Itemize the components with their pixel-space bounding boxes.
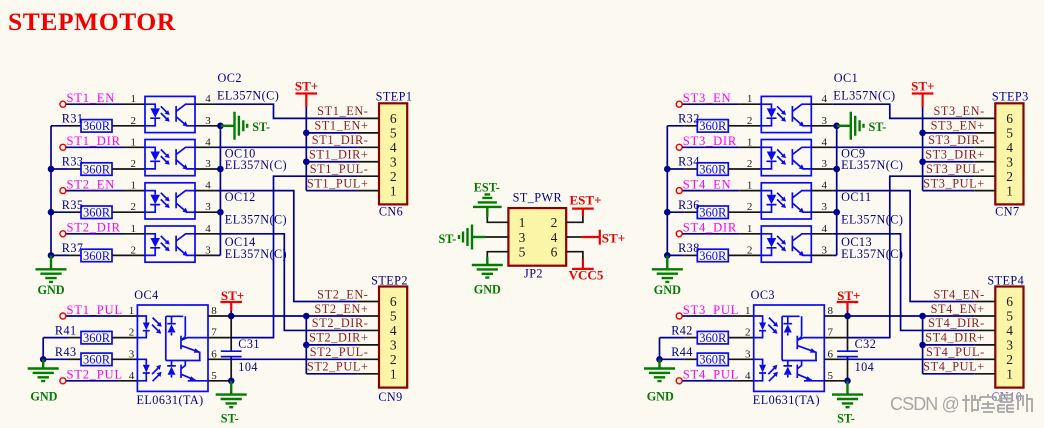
svg-text:1: 1 — [390, 367, 397, 382]
svg-text:GND: GND — [30, 390, 57, 404]
svg-text:VCC5: VCC5 — [569, 267, 604, 282]
svg-text:3: 3 — [822, 244, 828, 256]
junction — [303, 130, 310, 137]
pin CN6.1 — [358, 190, 379, 192]
pin R31.2 to OC2.2 — [112, 125, 145, 127]
pin CN9.5 — [358, 315, 379, 317]
wire GND bus to R34 — [667, 168, 685, 170]
svg-text:OC12: OC12 — [225, 190, 256, 204]
svg-text:R33: R33 — [62, 155, 84, 169]
svg-text:ST4_EN-: ST4_EN- — [933, 287, 984, 301]
svg-text:1: 1 — [1006, 367, 1013, 382]
wire pin3 to ST- bus — [217, 168, 221, 170]
svg-text:6: 6 — [390, 294, 397, 309]
op-toisolator OC11 EL357N(C) — [761, 183, 811, 219]
svg-text:R44: R44 — [671, 345, 693, 359]
wire ST+ bus bottom — [305, 316, 307, 374]
capacitor C31 plates — [221, 351, 242, 356]
resistor R32 360R — [697, 119, 728, 133]
pin CN10.2 — [974, 358, 995, 360]
power EST+ bar — [572, 208, 594, 210]
svg-text:EL357N(C): EL357N(C) — [225, 212, 287, 226]
svg-text:2: 2 — [551, 215, 558, 230]
svg-text:R38: R38 — [678, 241, 700, 255]
pin CN10.6 — [974, 301, 995, 303]
pin CN7.2 — [974, 175, 995, 177]
wire GND bus2 — [42, 338, 44, 360]
svg-text:STEP3: STEP3 — [992, 89, 1029, 103]
pin OC10.1 — [124, 146, 146, 148]
svg-text:ST3_EN+: ST3_EN+ — [931, 119, 985, 133]
junction — [664, 166, 671, 173]
pin OC9.3 — [811, 168, 833, 170]
ground GND — [36, 269, 67, 282]
svg-text:3: 3 — [822, 158, 828, 170]
svg-text:5: 5 — [1006, 309, 1013, 324]
pin R43.2 — [112, 358, 137, 360]
wire ST3_PUL — [682, 315, 732, 317]
svg-text:R31: R31 — [62, 112, 84, 126]
node ST1_PUL no-connect circle — [60, 313, 66, 319]
svg-text:CN9: CN9 — [378, 390, 402, 404]
svg-text:ST3_EN: ST3_EN — [683, 91, 732, 105]
svg-text:4: 4 — [129, 370, 135, 382]
svg-text:3: 3 — [390, 338, 397, 353]
svg-text:EL357N(C): EL357N(C) — [217, 89, 279, 103]
svg-text:R43: R43 — [55, 345, 77, 359]
svg-text:ST4_DIR-: ST4_DIR- — [928, 316, 985, 330]
svg-text:3: 3 — [519, 230, 526, 245]
pin OC12.3 — [195, 211, 217, 213]
svg-text:ST_PWR: ST_PWR — [513, 190, 563, 204]
power EST- bars — [473, 194, 502, 207]
svg-text:ST4_EN+: ST4_EN+ — [931, 302, 985, 316]
pin OC3.5 — [824, 380, 846, 382]
junction — [844, 313, 851, 320]
svg-text:R34: R34 — [678, 155, 700, 169]
svg-text:ST2_EN: ST2_EN — [67, 177, 116, 191]
junction — [833, 166, 840, 173]
svg-text:4: 4 — [745, 370, 751, 382]
resistor R37 360R — [81, 249, 112, 263]
pin R35.2 to OC12.2 — [112, 211, 145, 213]
resistor R43 360R — [81, 353, 112, 367]
svg-text:R42: R42 — [671, 323, 693, 337]
wire ST3_EN+ — [923, 132, 975, 134]
wire GND bus — [666, 126, 668, 256]
pin OC14.3 — [195, 254, 217, 256]
wire ST1_EN — [66, 103, 123, 105]
ground GND lead2 — [42, 359, 44, 368]
svg-text:R41: R41 — [55, 323, 77, 337]
wire OC3.5 to ST- — [846, 380, 848, 382]
junction — [48, 209, 55, 216]
junction — [303, 342, 310, 349]
svg-text:3: 3 — [822, 201, 828, 213]
svg-text:ST1_DIR: ST1_DIR — [67, 134, 121, 148]
wire ST4_PUL+ — [923, 373, 975, 375]
ground GND — [652, 269, 683, 282]
pin CN7.1 — [974, 190, 995, 192]
pin R37.2 to OC14.2 — [112, 254, 145, 256]
ground GND mid bars — [472, 265, 503, 278]
svg-text:CN7: CN7 — [995, 204, 1019, 218]
svg-text:2: 2 — [390, 352, 397, 367]
svg-text:3: 3 — [205, 158, 211, 170]
pin OC11.3 — [811, 211, 833, 213]
svg-text:2: 2 — [745, 327, 751, 339]
svg-text:R32: R32 — [678, 112, 700, 126]
svg-text:GND: GND — [474, 282, 501, 296]
svg-text:ST4_DIR+: ST4_DIR+ — [925, 331, 985, 345]
wire ST2_PUL — [66, 380, 116, 382]
svg-text:R36: R36 — [678, 198, 700, 212]
svg-text:R37: R37 — [62, 241, 84, 255]
svg-text:GND: GND — [654, 283, 681, 297]
pin JP2.6 — [566, 252, 583, 259]
watermark background halo — [886, 393, 1035, 416]
wire GND bus2 to R42 — [660, 337, 685, 339]
pin R31.1 — [69, 125, 82, 127]
wire GND bus to R38 — [667, 254, 685, 256]
svg-text:2: 2 — [390, 169, 397, 184]
wire ST1_DIR- — [217, 146, 358, 148]
wire GND bus2 to R43 — [43, 358, 68, 360]
pin R42.1 — [685, 337, 698, 339]
svg-text:ST+: ST+ — [221, 288, 244, 303]
wire pin3 to ST- bus — [217, 211, 221, 213]
power EST- lead — [486, 207, 488, 217]
pin R41.1 — [69, 337, 82, 339]
wire ST1_EN- — [217, 104, 358, 118]
pin OC13.1 — [740, 233, 762, 235]
svg-text:4: 4 — [822, 93, 828, 105]
svg-text:OC3: OC3 — [751, 288, 775, 302]
pin OC3.1 — [732, 315, 753, 317]
power ST+ lead — [921, 94, 923, 108]
svg-text:ST3_PUL-: ST3_PUL- — [926, 162, 985, 176]
resistor R38 360R — [697, 249, 728, 263]
capacitor C31 leads — [230, 316, 232, 381]
svg-text:ST3_DIR-: ST3_DIR- — [928, 133, 985, 147]
svg-text:6: 6 — [551, 245, 558, 260]
ground GND lead2 — [658, 359, 660, 368]
pin JP2.3 — [486, 236, 509, 238]
pin CN10.3 — [974, 344, 995, 346]
svg-text:ST1_EN-: ST1_EN- — [317, 104, 368, 118]
pin CN10.1 — [974, 373, 995, 375]
wire GND bus2 to R41 — [43, 337, 68, 339]
resistor R35 360R — [81, 206, 112, 220]
wire ST3_EN- — [833, 104, 974, 118]
pin R38.1 — [685, 254, 698, 256]
svg-text:ST1_PUL: ST1_PUL — [67, 303, 123, 317]
svg-text:ST4_PUL-: ST4_PUL- — [926, 345, 985, 359]
pin OC9.1 — [740, 146, 762, 148]
node ST1_DIR no-connect circle — [60, 144, 66, 150]
svg-text:ST1_EN+: ST1_EN+ — [314, 119, 368, 133]
svg-text:3: 3 — [390, 154, 397, 169]
svg-text:2: 2 — [747, 244, 753, 256]
wire GND bus2 to R44 — [660, 358, 685, 360]
wire pin3 to ST- bus — [833, 254, 837, 256]
node ST4_EN no-connect circle — [676, 188, 682, 194]
svg-text:EL357N(C): EL357N(C) — [841, 212, 903, 226]
wire ST1_DIR+ — [306, 161, 358, 163]
pin OC10.3 — [195, 168, 217, 170]
pin JP2.4 — [566, 236, 581, 238]
wire GND bus to R36 — [667, 211, 685, 213]
wire ST2_EN — [66, 190, 123, 192]
svg-text:5: 5 — [1006, 126, 1013, 141]
svg-text:ST+: ST+ — [837, 288, 860, 303]
ground GND mid lead — [486, 257, 488, 265]
svg-text:ST1_EN: ST1_EN — [67, 91, 116, 105]
node ST3_DIR no-connect circle — [676, 144, 682, 150]
svg-text:2: 2 — [129, 327, 135, 339]
pin R34.2 to OC9.2 — [728, 168, 761, 170]
pin R41.2 — [112, 337, 137, 339]
svg-text:1: 1 — [745, 305, 751, 317]
node ST4_PUL no-connect circle — [676, 378, 682, 384]
junction — [919, 342, 926, 349]
junction — [833, 209, 840, 216]
wire ST4_EN — [682, 190, 739, 192]
resistor R42 360R — [697, 331, 728, 345]
wire ST2_DIR+ — [306, 344, 358, 346]
pin OC11.1 — [740, 190, 762, 192]
svg-text:3: 3 — [1006, 338, 1013, 353]
pin OC2.1 — [124, 103, 146, 105]
power ST- bars — [235, 112, 248, 140]
svg-text:EL357N(C): EL357N(C) — [841, 247, 903, 261]
pin OC9.4 — [811, 146, 833, 148]
junction — [656, 356, 663, 363]
svg-text:4: 4 — [205, 93, 211, 105]
pin OC4.5 — [208, 380, 230, 382]
junction — [48, 252, 55, 259]
wire ST1_PUL- — [230, 176, 358, 337]
op-toisolator OC14 EL357N(C) — [145, 226, 195, 262]
op-toisolator OC12 EL357N(C) — [145, 183, 195, 219]
svg-text:4: 4 — [205, 223, 211, 235]
power ST- mid lead — [472, 236, 486, 238]
svg-text:1: 1 — [131, 223, 137, 235]
svg-text:EL0631(TA): EL0631(TA) — [137, 393, 204, 407]
pin CN6.3 — [358, 161, 379, 163]
junction — [664, 252, 671, 259]
svg-text:104: 104 — [238, 360, 258, 374]
power ST- lead — [220, 125, 234, 127]
wire pin3 to ST- bus — [833, 125, 837, 127]
pin CN6.2 — [358, 175, 379, 177]
pin CN9.2 — [358, 358, 379, 360]
svg-text:2: 2 — [131, 115, 137, 127]
pin R36.2 to OC11.2 — [728, 211, 761, 213]
svg-text:CSDN @: CSDN @ — [890, 394, 959, 414]
pin OC2.4 — [195, 103, 217, 105]
svg-text:1: 1 — [747, 180, 753, 192]
svg-text:4: 4 — [205, 136, 211, 148]
connector CN9 STEP2 body — [379, 287, 407, 388]
pin R42.2 — [728, 337, 753, 339]
pin OC13.4 — [811, 233, 833, 235]
pin OC14.1 — [124, 233, 146, 235]
svg-text:4: 4 — [1006, 140, 1013, 155]
pin CN7.6 — [974, 117, 995, 119]
power ST+ bottom lead — [846, 302, 848, 311]
wire ST3_DIR- — [833, 146, 974, 148]
wire ST4_PUL- — [846, 358, 974, 360]
pin OC2.3 — [195, 125, 217, 127]
wire ST+ bus bottom — [922, 316, 924, 374]
power ST- lead — [837, 125, 851, 127]
pin OC3.8 — [824, 315, 846, 317]
pin OC4.8 — [208, 315, 230, 317]
pin OC4.7 — [208, 337, 230, 339]
svg-text:5: 5 — [390, 309, 397, 324]
ground GND 2 — [28, 369, 59, 382]
junction — [217, 166, 224, 173]
svg-text:EST-: EST- — [474, 180, 500, 194]
wire ST2_PUL- — [230, 358, 358, 360]
resistor R44 360R — [697, 353, 728, 367]
svg-text:1: 1 — [519, 215, 526, 230]
svg-text:1: 1 — [131, 136, 137, 148]
svg-text:ST2_PUL: ST2_PUL — [67, 368, 123, 382]
svg-text:C32: C32 — [855, 337, 877, 351]
connector CN7 STEP3 body — [995, 103, 1023, 204]
pin JP2.1 — [487, 217, 508, 222]
svg-text:C31: C31 — [238, 337, 260, 351]
pin R32.1 — [685, 125, 698, 127]
op-toisolator OC4 internal symbol — [137, 316, 208, 381]
svg-text:1: 1 — [747, 136, 753, 148]
svg-text:EL357N(C): EL357N(C) — [833, 89, 895, 103]
pin OC13.3 — [811, 254, 833, 256]
resistor R41 360R — [81, 331, 112, 345]
svg-text:2: 2 — [131, 201, 137, 213]
pin CN6.5 — [358, 132, 379, 134]
svg-text:2: 2 — [1006, 169, 1013, 184]
wire ST+ bus — [305, 107, 307, 191]
junction — [833, 123, 840, 130]
svg-text:JP2: JP2 — [524, 267, 543, 281]
wire GND bus to R37 — [51, 254, 69, 256]
op-toisolator OC3 internal symbol — [754, 316, 825, 381]
ground GND 2 — [644, 369, 675, 382]
svg-text:1: 1 — [390, 183, 397, 198]
wire ST+ to CN9 EN+ — [230, 311, 358, 316]
resistor R31 360R — [81, 119, 112, 133]
svg-text:ST3_PUL+: ST3_PUL+ — [923, 177, 985, 191]
wire ST2_PUL+ — [306, 373, 358, 375]
svg-text:ST4_EN: ST4_EN — [683, 177, 732, 191]
watermark hanzi 柯宝最帅 (approximated strokes) — [962, 394, 1032, 412]
svg-text:ST1_PUL+: ST1_PUL+ — [307, 177, 369, 191]
junction — [217, 209, 224, 216]
svg-text:104: 104 — [855, 360, 875, 374]
pin OC3.7 — [824, 337, 846, 339]
svg-text:ST1_PUL-: ST1_PUL- — [310, 162, 369, 176]
svg-text:ST3_DIR+: ST3_DIR+ — [925, 148, 985, 162]
op-toisolator OC13 EL357N(C) — [761, 226, 811, 262]
pin JP2.2 — [566, 216, 583, 222]
pin OC11.4 — [811, 190, 833, 192]
svg-text:1: 1 — [747, 223, 753, 235]
svg-text:2: 2 — [131, 158, 137, 170]
wire ST2_DIR- — [217, 234, 358, 331]
wire ST1_PUL+ — [306, 190, 358, 192]
node ST2_DIR no-connect circle — [60, 231, 66, 237]
pin R34.1 — [685, 168, 698, 170]
svg-text:ST-: ST- — [438, 232, 456, 246]
wire GND bus2 — [659, 338, 661, 360]
svg-text:3: 3 — [822, 115, 828, 127]
svg-text:5: 5 — [519, 245, 526, 260]
svg-text:ST2_EN-: ST2_EN- — [317, 287, 368, 301]
wire ST3_EN — [682, 103, 739, 105]
wire GND bus — [50, 126, 52, 256]
op-toisolator OC3 EL0631(TA) body — [754, 305, 825, 391]
power EST+ lead — [582, 209, 584, 216]
power ST+ — [296, 93, 318, 95]
pin R37.1 — [69, 254, 82, 256]
svg-text:4: 4 — [551, 230, 558, 245]
svg-text:GND: GND — [647, 390, 674, 404]
wire ST3_PUL- — [846, 176, 974, 337]
op-toisolator OC1 EL357N(C) — [761, 96, 811, 132]
pin R33.1 — [69, 168, 82, 170]
power VCC5 bar — [572, 268, 594, 270]
svg-text:ST4_PUL: ST4_PUL — [683, 368, 739, 382]
svg-text:OC4: OC4 — [134, 288, 158, 302]
junction — [919, 158, 926, 165]
svg-text:ST1_DIR+: ST1_DIR+ — [309, 148, 369, 162]
svg-text:1: 1 — [747, 93, 753, 105]
pin CN7.3 — [974, 161, 995, 163]
ground GND lead — [50, 255, 52, 269]
svg-text:3: 3 — [205, 115, 211, 127]
svg-text:EL357N(C): EL357N(C) — [225, 158, 287, 172]
pin OC10.4 — [195, 146, 217, 148]
svg-text:3: 3 — [745, 348, 751, 360]
pin R35.1 — [69, 211, 82, 213]
svg-text:ST4_DIR: ST4_DIR — [683, 221, 737, 235]
wire OC4.5 to ST- — [230, 380, 232, 382]
wire GND bus to R32 — [667, 125, 685, 127]
svg-text:1: 1 — [1006, 183, 1013, 198]
svg-text:2: 2 — [131, 244, 137, 256]
svg-text:4: 4 — [205, 180, 211, 192]
svg-text:R35: R35 — [62, 198, 84, 212]
svg-text:ST3_EN-: ST3_EN- — [933, 104, 984, 118]
svg-text:ST3_PUL: ST3_PUL — [683, 303, 739, 317]
node ST2_PUL no-connect circle — [60, 378, 66, 384]
wire ST4_EN- — [833, 191, 974, 302]
pin CN9.1 — [358, 373, 379, 375]
resistor R36 360R — [697, 206, 728, 220]
svg-text:1: 1 — [131, 93, 137, 105]
junction — [919, 313, 926, 320]
wire GND bus to R35 — [51, 211, 69, 213]
capacitor C32 leads — [847, 316, 849, 381]
pin CN9.6 — [358, 301, 379, 303]
svg-text:STEP1: STEP1 — [376, 89, 413, 103]
connector CN6 STEP1 body — [379, 103, 407, 204]
pin CN7.4 — [974, 146, 995, 148]
junction — [228, 378, 235, 385]
